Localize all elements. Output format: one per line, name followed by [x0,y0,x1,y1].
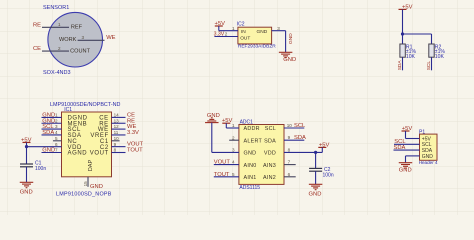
svg-text:SCL: SCL [265,126,276,132]
junction at VDD [25,145,28,148]
wire +5V to IN pin 1 [218,26,220,31]
wire R1 to SDA [402,57,404,70]
wire +5V down [402,9,404,34]
svg-text:GND: GND [309,191,322,197]
wire R2 to SCL [431,57,433,70]
svg-text:3: 3 [82,35,85,40]
svg-text:10: 10 [114,136,120,141]
pin 13 wire (RE) [112,122,126,124]
svg-text:6: 6 [55,142,58,147]
ground symbol [20,181,34,183]
pin COUNT (2) of SENSOR1 [42,50,69,52]
pin 9 wire (C2) [112,146,126,148]
svg-text:4: 4 [55,130,58,135]
wire SDA to pin 3 [394,149,420,151]
svg-text:Header 4: Header 4 [419,160,438,165]
ground symbol [309,183,323,185]
svg-text:LMP91000SD_NOPB: LMP91000SD_NOPB [56,191,112,197]
svg-text:4: 4 [232,160,235,165]
svg-text:1: 1 [55,113,58,118]
svg-text:IC2: IC2 [237,22,245,28]
wire C1 to ground [26,167,28,182]
svg-text:GND: GND [244,151,257,157]
svg-text:10K: 10K [406,54,416,60]
svg-text:GND: GND [288,33,294,44]
pin 3 wire (SCL) [42,128,62,130]
svg-text:11: 11 [114,130,119,135]
svg-text:REF: REF [71,24,83,30]
junction [401,32,404,35]
svg-text:ADDR: ADDR [244,126,260,132]
svg-text:14: 14 [114,113,120,118]
wire junction to R2 [403,33,432,35]
wire ground to GND pin 3 [211,123,213,153]
svg-text:GND: GND [90,184,103,190]
svg-text:2: 2 [55,118,58,123]
svg-text:9: 9 [288,135,291,140]
svg-text:GND: GND [399,167,412,173]
svg-text:GND: GND [422,154,434,160]
svg-text:10: 10 [287,123,293,128]
svg-text:RE: RE [33,22,41,28]
svg-text:SDA: SDA [264,138,276,144]
svg-text:COUNT: COUNT [70,48,90,54]
svg-text:13: 13 [114,118,120,123]
svg-text:DAP: DAP [88,160,94,172]
svg-text:1: 1 [232,123,235,128]
pin WORK (3) of SENSOR1 [78,39,105,41]
pin 9 wire (SDA) [284,139,304,141]
svg-text:SCL: SCL [426,61,432,71]
wire C2 to ground [315,171,317,184]
svg-text:5: 5 [232,172,235,177]
svg-text:3: 3 [55,124,58,129]
svg-text:SDA: SDA [294,135,306,141]
capacitor C2 [309,167,322,169]
svg-text:WORK: WORK [59,37,77,43]
AFE IC1 body [62,112,112,177]
electrochemical sensor SENSOR1 body [48,12,103,67]
voltage regulator IC2 body [238,27,272,44]
pin 14 wire (CE) [112,116,126,118]
pin REF (1) of SENSOR1 [42,26,69,28]
svg-text:6: 6 [288,172,291,177]
svg-text:VDD: VDD [264,151,276,157]
junction at C2 [314,151,317,154]
svg-text:AIN3: AIN3 [263,163,276,169]
pin 8 wire (VDD) to +5V [284,151,322,153]
wire +5V to pin 1 [405,131,407,139]
svg-text:8: 8 [288,147,291,152]
svg-text:VOUT: VOUT [90,151,109,157]
wire +5V to ADDR pin 1 [225,123,227,128]
pin 15 wire (DAP) [87,177,89,187]
wire SCL to pin 2 [394,143,420,145]
svg-text:GND: GND [42,148,55,154]
pin 10 wire (SCL) [284,127,304,129]
svg-text:GND: GND [283,57,296,63]
svg-text:15: 15 [83,181,88,187]
pin 1 wire (DGND) [42,116,62,118]
svg-text:SDA: SDA [397,60,403,71]
ground symbol [399,162,413,164]
wire junction down to C2 [315,152,317,168]
svg-text:LMP91000SDE/NOPBCT-ND: LMP91000SDE/NOPBCT-ND [50,102,121,108]
pin 7 wire (AGND) [42,152,62,154]
svg-text:REF2933AIDBZR: REF2933AIDBZR [238,43,276,49]
pin 4 wire (SDA) [42,134,62,136]
wire +5V stem [321,147,323,152]
wire VOUT to AIN0 pin 4 [214,164,239,166]
svg-text:ADC1: ADC1 [240,119,254,125]
svg-text:ADS1115: ADS1115 [239,185,260,191]
pin 12 wire (WE) [112,128,126,130]
svg-text:AIN0: AIN0 [244,163,257,169]
wire TOUT to AIN1 pin 5 [214,176,239,178]
svg-text:IC1: IC1 [64,107,72,113]
svg-text:12: 12 [114,124,120,129]
svg-text:AIN1: AIN1 [244,175,257,181]
svg-text:2: 2 [232,135,235,140]
svg-text:SENSOR1: SENSOR1 [43,5,69,11]
svg-text:TOUT: TOUT [127,148,143,154]
svg-text:CE: CE [33,46,41,52]
svg-text:IN: IN [241,29,246,35]
pin 5 wire (NC) [53,140,62,142]
svg-text:7: 7 [55,148,58,153]
pin 7 stub (AIN3) [284,164,296,166]
svg-text:10K: 10K [435,54,445,60]
svg-text:AIN2: AIN2 [263,175,276,181]
svg-text:5: 5 [55,136,58,141]
pin 6 wire (VDD) [27,146,62,148]
svg-text:9: 9 [114,142,117,147]
svg-text:SOX-4ND3: SOX-4ND3 [43,70,71,76]
capacitor C1 [20,163,33,165]
svg-text:1: 1 [58,22,61,27]
svg-text:3.3V: 3.3V [127,130,139,136]
wire GND pin 4 to ground [406,155,420,157]
pin 11 wire (VREF) [112,134,126,136]
svg-text:SCL: SCL [294,123,306,129]
svg-text:SDA: SDA [42,130,54,136]
svg-text:2: 2 [225,32,228,37]
svg-text:GND: GND [257,29,268,35]
pin 2 stub (ALERT) [229,139,239,141]
svg-text:1: 1 [232,26,235,31]
svg-text:3: 3 [232,148,235,153]
svg-text:100n: 100n [323,172,334,178]
connector P1 body [420,134,438,160]
pin 6 stub (AIN2) [284,176,296,178]
wire GND pin 3 [272,30,286,32]
svg-text:8: 8 [114,148,117,153]
svg-text:AGND: AGND [68,151,88,157]
ground symbol [279,51,293,53]
svg-text:GND: GND [20,190,33,196]
wire junction to R1 [402,34,404,44]
svg-text:2: 2 [58,46,61,51]
pin 8 wire (VOUT) [112,152,126,154]
resistor R2 body [429,44,434,57]
pin 2 wire (MENB) [42,122,62,124]
svg-text:GND: GND [207,113,220,119]
wire down to ground [285,31,287,52]
svg-text:7: 7 [288,160,291,165]
svg-text:WE: WE [106,35,115,41]
resistor R1 body [400,44,405,57]
svg-text:P1: P1 [419,129,425,135]
ADC IC ADC1 body [239,125,284,185]
wire junction down to C1 [26,147,28,164]
pin 10 wire (C1) [112,140,120,142]
wire +5V to VDD [26,142,28,146]
svg-text:ALERT: ALERT [244,138,263,144]
svg-text:OUT: OUT [240,35,250,41]
svg-text:100n: 100n [35,166,46,172]
wire OUT pin 2 to 3.3V [214,36,238,38]
